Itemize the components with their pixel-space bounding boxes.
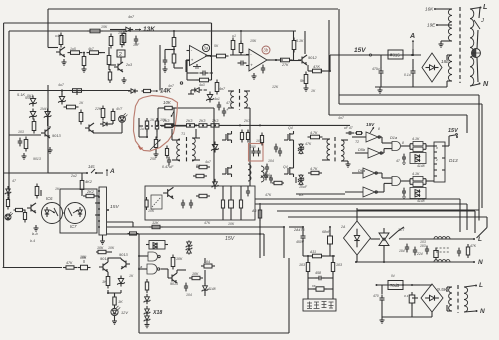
- capacitor C7: [372, 67, 384, 77]
- label v23: [196, 164, 200, 168]
- capacitor C5: [238, 61, 247, 66]
- svg-text:14c: 14c: [88, 164, 96, 169]
- wire U3b in: [230, 52, 249, 55]
- wire mid corner: [339, 95, 479, 210]
- wire stair 7: [296, 193, 345, 195]
- transistor Q2: [114, 62, 132, 72]
- svg-text:X18: X18: [152, 310, 162, 316]
- wire aux bottom: [382, 298, 432, 317]
- wire Q4 base: [41, 132, 43, 134]
- svg-text:4148: 4148: [417, 164, 425, 168]
- resistor R10: [172, 49, 176, 67]
- wire L terminal: [470, 3, 487, 18]
- svg-text:4V7: 4V7: [116, 107, 123, 111]
- svg-text:10K: 10K: [148, 209, 155, 213]
- wire U3a top: [174, 47, 183, 68]
- resistor R22: [64, 105, 79, 109]
- wire t3: [171, 124, 200, 160]
- inductor FL1b: [434, 260, 450, 262]
- wire sec2 to bridge: [446, 55, 448, 87]
- wire third bus: [9, 30, 296, 32]
- svg-text:4u7: 4u7: [205, 160, 212, 164]
- resistor R49 4K2: [80, 178, 93, 193]
- zener D23 pair: [298, 174, 304, 185]
- wire right drop B: [329, 20, 467, 115]
- label 15V mod: [225, 236, 235, 242]
- svg-text:47K: 47K: [470, 244, 477, 248]
- svg-text:15V: 15V: [110, 204, 119, 210]
- label v32: [148, 209, 155, 213]
- svg-text:470: 470: [373, 294, 379, 298]
- label v17: [214, 97, 220, 101]
- svg-text:19E: 19E: [427, 23, 436, 28]
- wire U3b net: [240, 30, 242, 43]
- resistor R66: [251, 207, 262, 221]
- wire out filter L: [399, 236, 482, 243]
- svg-text:1u5: 1u5: [70, 47, 76, 51]
- op-amp U3a: [187, 46, 211, 69]
- svg-text:47K: 47K: [305, 142, 312, 146]
- resistor R1: [59, 33, 63, 48]
- capacitor C20: [181, 200, 185, 209]
- capacitor C1: [82, 55, 86, 68]
- svg-text:1N4: 1N4: [40, 107, 46, 111]
- capacitor C26: [308, 284, 333, 291]
- transformer T4b: [261, 166, 264, 182]
- resistor R30: [162, 124, 176, 127]
- svg-text:+: +: [191, 58, 194, 63]
- wire logic nets: [139, 256, 186, 278]
- wire aux input: [376, 284, 433, 286]
- wire bottom bus: [139, 234, 289, 333]
- svg-text:104: 104: [186, 293, 192, 297]
- ground X2: [100, 235, 105, 244]
- svg-text:10K: 10K: [160, 118, 167, 122]
- ground U3b: [252, 73, 257, 79]
- transformer T5 right: [341, 140, 344, 161]
- ground aux: [380, 317, 385, 323]
- svg-text:16K: 16K: [425, 7, 434, 12]
- svg-text:u1: u1: [232, 34, 236, 38]
- label v50: [30, 239, 35, 243]
- ground t5: [346, 161, 351, 167]
- capacitor C2: [133, 36, 140, 47]
- wire q4 col: [48, 119, 50, 128]
- svg-text:A31: A31: [309, 250, 316, 254]
- transistor Q10: [27, 203, 36, 213]
- wire led net: [93, 121, 122, 133]
- svg-text:1K: 1K: [129, 274, 134, 278]
- resistor R53: [229, 186, 234, 220]
- svg-text:47: 47: [12, 179, 17, 183]
- svg-text:5K1: 5K1: [27, 94, 33, 98]
- label v53: [140, 127, 144, 131]
- svg-text:N: N: [483, 80, 489, 88]
- switch J: [474, 18, 484, 29]
- svg-text:3a: 3a: [203, 46, 208, 51]
- diode D14: [5, 186, 11, 196]
- resistor R19: [310, 64, 325, 73]
- resistor R32: [165, 124, 173, 127]
- tap 19E: [427, 23, 452, 28]
- svg-text:47u: 47u: [226, 101, 232, 105]
- wire stair 8: [357, 209, 479, 211]
- svg-text:103: 103: [336, 263, 342, 267]
- resistor R28: [145, 118, 148, 132]
- diode D8: [188, 83, 205, 94]
- wire 13K net: [110, 29, 125, 31]
- wire aux links: [402, 284, 420, 286]
- zener D11 pair: [410, 153, 426, 169]
- svg-text:14K: 14K: [160, 89, 172, 95]
- svg-text:15K: 15K: [250, 39, 257, 43]
- wire second bus: [4, 23, 212, 45]
- LED LED3: [111, 306, 128, 316]
- svg-text:0.47uF: 0.47uF: [162, 165, 174, 169]
- svg-text:1K: 1K: [311, 89, 316, 93]
- label v14: [160, 118, 167, 122]
- svg-text:9012: 9012: [308, 55, 317, 60]
- wire q9 net: [294, 143, 297, 183]
- resistor R37: [196, 165, 210, 168]
- svg-text:D5b: D5b: [358, 147, 366, 152]
- capacitor C8: [404, 68, 416, 78]
- svg-text:4n7: 4n7: [219, 87, 226, 91]
- capacitor C29: [399, 244, 409, 253]
- resistor R47: [14, 208, 25, 211]
- svg-text:9: 9: [436, 146, 438, 150]
- label v33: [108, 246, 115, 250]
- svg-text:103: 103: [18, 130, 24, 134]
- inverter D6b: [363, 187, 377, 197]
- capacitor C9: [18, 138, 23, 147]
- transformer T1 core: [459, 7, 461, 83]
- svg-text:Q4: Q4: [283, 165, 288, 169]
- svg-text:2K3: 2K3: [211, 119, 218, 123]
- capacitor C16: [278, 148, 282, 157]
- resistor R34: [199, 124, 207, 127]
- svg-text:1nF: 1nF: [133, 43, 140, 47]
- resistor R6: [122, 31, 126, 46]
- protection box: [303, 299, 336, 311]
- capacitor C3: [163, 50, 175, 73]
- svg-text:N: N: [478, 259, 483, 266]
- inverter D6a: [358, 168, 377, 178]
- mosfet Q8: [284, 131, 294, 143]
- wire logic v: [204, 258, 206, 296]
- capacitor C28: [322, 230, 333, 247]
- resistor R52: [221, 186, 224, 220]
- wire Q3 net: [267, 59, 283, 61]
- resistor R68: [128, 232, 139, 235]
- capacitor C21: [189, 200, 193, 209]
- svg-text:458: 458: [315, 271, 321, 275]
- svg-text:4n7: 4n7: [168, 84, 175, 88]
- svg-text:2u2: 2u2: [70, 174, 77, 178]
- gate IC8a: [148, 252, 160, 261]
- svg-text:47K: 47K: [265, 193, 272, 197]
- inverter D5b: [358, 147, 382, 158]
- capacitor C22: [246, 186, 250, 196]
- svg-text:3b: 3b: [263, 48, 268, 53]
- label v1: [70, 47, 76, 51]
- label +5V pwm: [366, 122, 375, 133]
- resistor R70 10K: [96, 246, 112, 254]
- transformer T3 right: [192, 138, 195, 161]
- capacitor C36: [264, 172, 273, 184]
- red tick: [139, 146, 143, 150]
- zener D17: [117, 276, 124, 287]
- wire fb loop: [187, 23, 213, 80]
- label v45: [272, 85, 279, 89]
- wire top bus: [48, 8, 338, 10]
- tap 18E: [441, 55, 452, 81]
- diode D18: [144, 294, 151, 304]
- core dash: [436, 248, 450, 252]
- optocoupler IC6: [42, 196, 63, 224]
- label v21: [268, 159, 274, 163]
- svg-text:100: 100: [256, 139, 262, 143]
- wire trim left: [139, 118, 148, 138]
- diode D7 14K row: [128, 89, 172, 95]
- label v8: [116, 107, 123, 111]
- connector X1: [434, 142, 445, 182]
- svg-text:A3: A3: [251, 209, 256, 213]
- label v27: [283, 165, 288, 169]
- wire left border inner: [8, 31, 10, 199]
- resistor R14: [231, 38, 235, 53]
- label misc3: [298, 193, 303, 197]
- wire U3a out: [205, 55, 216, 57]
- svg-text:4n7: 4n7: [128, 15, 135, 19]
- ground Q4: [48, 147, 53, 153]
- inductor FL1a: [434, 237, 450, 239]
- label v19: [243, 119, 250, 123]
- ground d19: [145, 322, 150, 328]
- resistor R45: [35, 184, 39, 199]
- label 5K1: [17, 92, 25, 97]
- label v10: [40, 107, 46, 111]
- ground Q1 emitter: [62, 59, 67, 65]
- svg-text:12V: 12V: [121, 310, 128, 315]
- mosfet Q9: [284, 165, 294, 177]
- transistor Q4: [41, 128, 61, 138]
- svg-text:4.7K: 4.7K: [310, 167, 318, 171]
- svg-text:5.1K: 5.1K: [296, 39, 304, 43]
- transformer T3 left: [177, 139, 180, 161]
- svg-text:A: A: [409, 32, 415, 40]
- resistor R12: [214, 54, 229, 58]
- wire bridge top: [356, 208, 358, 221]
- wire N terminal: [470, 80, 489, 88]
- svg-text:18E: 18E: [441, 59, 450, 64]
- label v12: [33, 157, 41, 161]
- zener D22 pair: [298, 143, 304, 154]
- svg-text:N: N: [480, 308, 485, 315]
- resistor R36: [165, 146, 168, 159]
- wire R3 junction: [83, 52, 85, 56]
- wire aux L: [464, 282, 483, 289]
- label v20: [256, 139, 262, 143]
- capacitor C31: [420, 244, 429, 254]
- diode D19 pair: [144, 306, 163, 323]
- ground Q3: [304, 85, 309, 91]
- wire right drop A: [339, 9, 482, 104]
- label v26: [305, 142, 312, 146]
- bridge rectifier B3: [421, 284, 448, 312]
- zener D21 pair box: [146, 241, 168, 250]
- svg-text:T1: T1: [181, 132, 185, 136]
- LED LED1: [119, 113, 128, 122]
- wire led2 net: [108, 272, 121, 296]
- label v13: [150, 118, 155, 122]
- resistor R29: [155, 118, 158, 132]
- diode D4: [44, 109, 51, 120]
- regulator 7815: [388, 50, 403, 59]
- svg-text:15V: 15V: [225, 236, 235, 242]
- wire pwm inputs: [345, 137, 368, 192]
- connector X2: [95, 187, 107, 235]
- wire stair 2: [107, 227, 284, 258]
- dashed part: [151, 195, 162, 209]
- transistor Q1: [56, 47, 65, 57]
- svg-text:1u: 1u: [140, 127, 144, 131]
- svg-text:22K: 22K: [94, 107, 102, 111]
- label v28: [299, 185, 308, 189]
- svg-text:T2: T2: [355, 140, 359, 144]
- resistor R55: [193, 174, 207, 177]
- label v34: [80, 255, 87, 259]
- LED LED2: [5, 212, 13, 220]
- wire out L: [371, 239, 385, 262]
- svg-text:9013: 9013: [119, 252, 128, 257]
- svg-text:8: 8: [402, 141, 404, 145]
- svg-text:103: 103: [420, 240, 426, 244]
- resistor R41: [260, 133, 263, 146]
- resistor R8: [120, 33, 124, 48]
- svg-text:9013: 9013: [33, 157, 41, 161]
- svg-text:13K: 13K: [143, 26, 156, 33]
- capacitor C15: [274, 144, 278, 153]
- wire bus125 ext: [240, 124, 350, 126]
- svg-text:b-4: b-4: [30, 239, 35, 243]
- svg-text:4n7: 4n7: [338, 116, 345, 120]
- resistor R65: [466, 244, 476, 258]
- svg-text:5K: 5K: [214, 44, 219, 48]
- svg-text:0.1u: 0.1u: [404, 73, 411, 77]
- svg-text:103: 103: [420, 244, 426, 248]
- transistor Q14: [168, 273, 178, 286]
- svg-text:-: -: [191, 48, 193, 53]
- svg-text:4148: 4148: [208, 287, 216, 291]
- label v36: [186, 293, 192, 297]
- svg-text:4.7K: 4.7K: [310, 131, 318, 135]
- svg-text:8: 8: [378, 127, 380, 131]
- resistor R25: [111, 109, 115, 124]
- gate D1b: [392, 177, 404, 186]
- wire Q3 col: [290, 31, 305, 61]
- transistor Q11: [145, 187, 174, 210]
- label v38: [398, 228, 405, 232]
- svg-text:1K: 1K: [118, 299, 123, 304]
- wire psu left: [380, 55, 382, 87]
- capacitor C27: [293, 228, 306, 244]
- op-amp U3b: [246, 49, 270, 71]
- label D13: [449, 158, 458, 163]
- diode D1 13K: [123, 26, 156, 33]
- label v41: [214, 44, 219, 48]
- resistor R43 pair: [410, 137, 426, 152]
- wire mid-left bus: [9, 90, 130, 92]
- capacitor C25: [308, 271, 333, 280]
- label misc1: [128, 15, 135, 19]
- label v52: [149, 157, 156, 161]
- label v15: [168, 84, 175, 88]
- label v0: [55, 34, 61, 38]
- red annotation box: [249, 144, 264, 162]
- resistor R33: [187, 124, 195, 127]
- node junction: [173, 30, 175, 37]
- svg-text:L: L: [478, 236, 482, 243]
- resistor R63: [331, 260, 342, 275]
- label v4: [118, 31, 124, 35]
- svg-text:47K: 47K: [313, 64, 320, 69]
- resistor R64: [303, 250, 335, 258]
- label v40: [391, 274, 395, 278]
- svg-text:104: 104: [399, 249, 405, 253]
- label v11: [18, 130, 24, 134]
- wire trim right: [172, 82, 214, 186]
- wire opamp block frame: [159, 45, 161, 91]
- svg-text:A: A: [109, 168, 115, 175]
- wire A drop: [412, 49, 414, 56]
- capacitor C18: [402, 188, 406, 199]
- svg-text:27K: 27K: [281, 63, 289, 67]
- svg-text:1K: 1K: [79, 101, 84, 105]
- red annotation loop: [134, 96, 178, 152]
- capacitor C24 104: [201, 260, 215, 268]
- svg-text:+: +: [250, 63, 253, 68]
- svg-text:IN: IN: [391, 274, 395, 278]
- resistor R26: [70, 89, 85, 93]
- label U3a: [202, 44, 209, 51]
- label v6: [79, 101, 84, 105]
- label misc2: [260, 174, 273, 179]
- label v44: [311, 89, 316, 93]
- label v48: [70, 174, 77, 178]
- svg-text:IC7: IC7: [70, 224, 77, 229]
- svg-text:2u3: 2u3: [125, 63, 132, 67]
- transformer T2 left: [231, 91, 234, 108]
- svg-text:9.5K: 9.5K: [437, 287, 448, 293]
- transformer T5 left: [327, 139, 330, 160]
- wire psu right: [412, 59, 414, 87]
- resistor R4: [87, 29, 103, 33]
- potentiometer RP2: [78, 256, 91, 270]
- ground Q2: [122, 77, 127, 83]
- label v37: [340, 225, 346, 229]
- wire right corner vert A: [481, 104, 483, 208]
- transformer T7 core: [457, 285, 459, 313]
- transformer T3 core: [186, 137, 188, 162]
- capacitor C11: [222, 107, 229, 116]
- gate IC8b: [138, 264, 160, 274]
- resistor R54: [239, 186, 242, 220]
- capacitor C6: [261, 65, 265, 74]
- ground T1 center: [439, 41, 453, 47]
- wire Q2 col: [99, 47, 121, 70]
- capacitor C14: [264, 164, 270, 177]
